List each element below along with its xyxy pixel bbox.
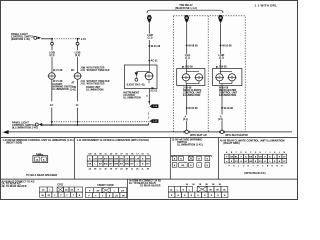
svg-text:J-04: J-04	[80, 69, 85, 72]
svg-text:ILLUMINATION: ILLUMINATION	[123, 96, 141, 99]
svg-text:GW: GW	[249, 161, 252, 163]
svg-text:ILLUMINATION: ILLUMINATION	[183, 94, 201, 97]
svg-text:B/W: B/W	[125, 164, 129, 166]
svg-text:B/W: B/W	[114, 158, 118, 160]
svg-text:J: J	[269, 152, 270, 154]
svg-text:W-10-08: W-10-08	[222, 44, 232, 47]
svg-text:(RIGHT SIDE): (RIGHT SIDE)	[223, 141, 239, 145]
svg-text:TO REAR HEATER: TO REAR HEATER	[140, 185, 161, 188]
svg-text:B/W: B/W	[120, 158, 124, 160]
svg-text:1 1 WITH DRL: 1 1 WITH DRL	[255, 4, 278, 8]
svg-text:(2.1): (2.1)	[185, 57, 190, 60]
svg-text:TO NO.2 REAR SPEAKER: TO NO.2 REAR SPEAKER	[26, 173, 57, 177]
svg-text:11: 11	[76, 103, 80, 107]
svg-text:(1-41): (1-41)	[70, 89, 76, 92]
svg-text:WITH SEAT A/C: WITH SEAT A/C	[190, 134, 207, 137]
svg-text:AC-01: AC-01	[150, 90, 157, 93]
svg-text:W-08-08: W-08-08	[188, 44, 198, 47]
svg-text:L/W: L/W	[136, 158, 140, 160]
svg-text:WITH SEAT HEATER: WITH SEAT HEATER	[225, 134, 248, 137]
svg-text:(2.1): (2.1)	[218, 119, 223, 121]
svg-text:2B: TO REAR HEATER: 2B: TO REAR HEATER	[2, 185, 27, 188]
svg-text:2M: 2M	[147, 168, 150, 170]
svg-text:FRONT CORD: FRONT CORD	[97, 184, 113, 187]
svg-text:AC-01: AC-01	[151, 60, 159, 63]
svg-text:B/W: B/W	[104, 158, 108, 160]
svg-text:(2.1): (2.1)	[49, 54, 54, 57]
svg-text:2W: 2W	[122, 195, 125, 197]
svg-text:B/W: B/W	[104, 164, 108, 166]
svg-text:(ILLUMINATION 1-40): (ILLUMINATION 1-40)	[12, 125, 38, 129]
svg-text:(2.1): (2.1)	[183, 119, 188, 121]
svg-text:(RIGHT SIDE): (RIGHT SIDE)	[6, 141, 22, 145]
svg-text:(IGNITION 1-40): (IGNITION 1-40)	[11, 37, 30, 41]
svg-text:(WITH REAR A/C): (WITH REAR A/C)	[244, 171, 265, 175]
svg-text:L/G: L/G	[115, 195, 119, 197]
svg-text:(2.1): (2.1)	[147, 37, 152, 40]
svg-text:L/W: L/W	[125, 158, 129, 160]
svg-text:J-03: J-03	[80, 84, 85, 86]
svg-text:AT: AT	[71, 81, 75, 84]
svg-text:ILLUMINATION: ILLUMINATION	[86, 89, 104, 92]
svg-text:J-01: J-01	[81, 37, 87, 41]
svg-text:DC: DC	[71, 69, 75, 72]
svg-text:(2.1): (2.1)	[219, 57, 224, 60]
svg-text:2J: 2J	[131, 168, 133, 170]
svg-text:GW: GW	[230, 156, 233, 158]
svg-text:B/W: B/W	[109, 158, 113, 160]
svg-text:1-11 INSTRUMENT CLUSTER ILLUM: 1-11 INSTRUMENT CLUSTER ILLUMINATION (WI…	[77, 138, 149, 142]
svg-text:W-71-08: W-71-08	[53, 69, 63, 72]
svg-text:B/W: B/W	[114, 164, 118, 166]
svg-text:B/W: B/W	[99, 158, 103, 160]
svg-text:B/W: B/W	[146, 158, 150, 160]
svg-text:(LIGHT ON 1-41): (LIGHT ON 1-41)	[127, 83, 145, 86]
svg-text:2W: 2W	[96, 190, 99, 192]
svg-text:W-10-08: W-10-08	[224, 107, 234, 110]
svg-text:B/W: B/W	[130, 158, 134, 160]
svg-text:GW: GW	[259, 156, 262, 158]
svg-text:W-21-08: W-21-08	[151, 45, 161, 48]
svg-text:ILLUMINATION: ILLUMINATION	[219, 94, 237, 97]
svg-text:CP11: CP11	[57, 183, 64, 186]
svg-text:W-71-08: W-71-08	[53, 80, 63, 83]
svg-text:ILLUMINATION (1-41): ILLUMINATION (1-41)	[177, 143, 203, 147]
svg-text:(MAIN FUSE 1-1-2): (MAIN FUSE 1-1-2)	[175, 7, 197, 10]
svg-text:L/W: L/W	[93, 158, 97, 160]
svg-text:WITHOUT TWEETER: WITHOUT TWEETER	[87, 70, 110, 72]
svg-text:1B: 1B	[151, 88, 154, 90]
svg-text:ILLUMINATION: ILLUMINATION	[52, 88, 69, 91]
svg-text:12: 12	[50, 103, 54, 107]
svg-text:W-05-08: W-05-08	[188, 107, 198, 110]
svg-text:2W: 2W	[121, 190, 124, 192]
svg-text:(2.1): (2.1)	[75, 54, 80, 57]
svg-text:1J: 1J	[136, 154, 138, 156]
